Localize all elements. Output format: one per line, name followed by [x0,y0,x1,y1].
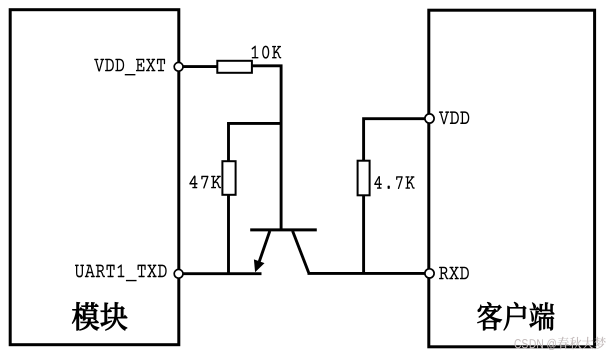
wire R3 bottom to RXD net [362,195,365,273]
resistor R1 10K [217,61,252,73]
wire R1 to base node [252,66,281,229]
label RXD [439,267,469,280]
label UART1_TXD [75,264,167,281]
pin RXD [425,269,434,278]
client box [429,10,595,347]
pin VDD [425,114,434,123]
label 模块 [72,302,127,330]
label VDD_EXT [94,59,165,76]
label 4.7K [374,176,414,189]
wire R2 bottom to TXD net [227,195,230,274]
module box [10,10,179,345]
wire to R2 top [227,122,230,162]
label 47K [189,175,221,188]
wire VDD to R3 [364,119,427,162]
wire collector to RXD [308,272,428,275]
transistor Q1 [250,230,317,273]
watermark CSDN @春秋大梦 [515,337,606,350]
label VDD [439,111,469,124]
wire VDD_EXT to R1 [181,65,219,68]
resistor R3 4.7K [358,161,370,196]
wire base node to R2 branch [227,122,282,125]
wire UART1_TXD to emitter [181,272,262,275]
pin UART1_TXD [174,269,183,278]
resistor R2 47K [222,161,235,195]
label 客户端 [477,302,554,330]
pin VDD_EXT [174,62,183,71]
label 10K [252,46,282,59]
